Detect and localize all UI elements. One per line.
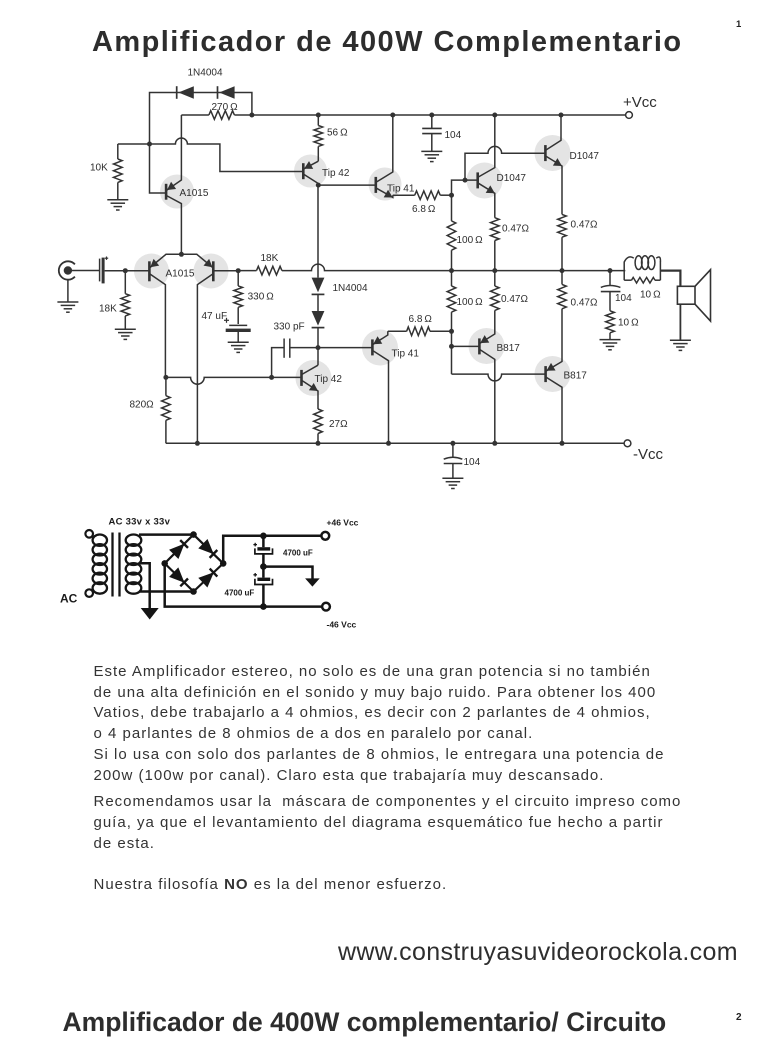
transistor Q5 emitter lead xyxy=(376,188,393,198)
resistor R12 27 ohm xyxy=(314,409,323,434)
svg-text:0.47Ω: 0.47Ω xyxy=(571,220,598,231)
wire input to cap xyxy=(68,270,99,272)
transistor Q8 collector lead xyxy=(302,365,319,374)
bridge rectifier outline xyxy=(165,535,224,592)
junction node left collector xyxy=(163,375,168,380)
next page title sliver xyxy=(63,1007,667,1038)
wire Q1 base drop xyxy=(150,144,167,193)
transistor Q8 emitter lead xyxy=(302,380,319,409)
wire D1047-1 base link xyxy=(452,180,478,195)
svg-text:AC 33v x 33v: AC 33v x 33v xyxy=(109,517,171,528)
svg-text:4700 uF: 4700 uF xyxy=(225,589,255,598)
junction node tail xyxy=(179,252,184,257)
transistor Q10 emitter arrow xyxy=(480,335,489,343)
diode D2 1N4004 xyxy=(219,86,234,99)
svg-text:100 Ω: 100 Ω xyxy=(457,235,484,246)
bridge diode lower-right xyxy=(198,572,214,587)
paragraph 3 xyxy=(94,875,448,896)
transistor Q3 A1015 bar xyxy=(212,261,215,281)
wire diode branch top xyxy=(150,93,252,145)
junction node base link xyxy=(463,178,468,183)
terminal -Vcc xyxy=(624,440,631,447)
resistor R9 0.47 ohm upper-left xyxy=(491,218,500,241)
transistor Q11 emitter arrow xyxy=(546,363,555,371)
wire Q3 base xyxy=(213,270,238,272)
transistor Q9 collector lead xyxy=(372,350,388,443)
capacitor C5 104 bottom stem xyxy=(452,443,454,457)
transistor Q6 D1047 bar xyxy=(476,172,479,188)
svg-text:10 Ω: 10 Ω xyxy=(640,290,661,301)
svg-text:0.47Ω: 0.47Ω xyxy=(502,224,529,235)
wire bridge to -46 rail xyxy=(165,563,323,606)
input connector RCA outer xyxy=(59,261,75,279)
svg-text:D1047: D1047 xyxy=(570,151,600,162)
junction node 330pF leg xyxy=(269,375,274,380)
capacitor C8 4700uF top bar xyxy=(257,578,270,581)
transistor Q6 emitter lead xyxy=(478,183,495,218)
junction dots on -Vcc rail xyxy=(195,441,200,446)
capacitor C3 104 plates xyxy=(422,127,442,129)
wire B817-1 base xyxy=(452,345,480,347)
capacitor C5 plates xyxy=(444,457,463,459)
wire tail left arm xyxy=(149,254,181,268)
resistor R5 18K feedback xyxy=(238,270,256,272)
transistor Q10 collector lead xyxy=(479,349,494,443)
wire secondary top to bridge xyxy=(139,533,194,536)
ground below C5 xyxy=(442,477,463,479)
transistor Q1 emitter lead xyxy=(166,115,181,191)
transistor Q2 A1015 bar xyxy=(148,261,151,281)
capacitor C1 input coupling plate2 xyxy=(102,258,105,284)
capacitor C8 4700uF tray xyxy=(255,579,273,585)
terminal +Vcc xyxy=(626,112,633,119)
wire speaker to ground xyxy=(679,304,681,340)
bridge corner dots xyxy=(190,531,197,538)
terminal AC primary top xyxy=(85,530,93,538)
transformer T1 secondary winding xyxy=(126,535,142,546)
resistor R17 10 ohm zobel xyxy=(609,292,611,311)
svg-text:D1047: D1047 xyxy=(497,173,527,184)
ground below RCA xyxy=(57,301,78,303)
terminal +46 Vcc xyxy=(321,532,329,540)
wire D1047-2 base link with hop xyxy=(465,146,545,180)
transistor Q11 B817 shading circle xyxy=(535,356,571,392)
svg-text:270 Ω: 270 Ω xyxy=(212,102,239,113)
wire Q8 base with hop xyxy=(166,377,302,384)
wire secondary bottom to bridge xyxy=(139,590,194,593)
resistor R7 6.8 ohm upper xyxy=(393,194,415,196)
diode D1 1N4004 xyxy=(178,86,193,99)
website url xyxy=(338,938,738,967)
capacitor C6 plates xyxy=(601,286,621,288)
transistor Q11 B817 bar xyxy=(544,366,547,382)
svg-text:330 Ω: 330 Ω xyxy=(248,292,275,303)
wire 0.47 LR top xyxy=(561,271,563,285)
capacitor C5 lower stem xyxy=(452,464,454,479)
junction node input bias xyxy=(123,268,128,273)
page title xyxy=(92,26,683,59)
capacitor C4 330pF plates xyxy=(283,339,285,358)
speaker box xyxy=(677,286,695,304)
speaker horn xyxy=(695,270,711,321)
svg-text:A1015: A1015 xyxy=(180,188,209,199)
svg-text:Tip 41: Tip 41 xyxy=(392,349,420,360)
transistor Q6 emitter arrow xyxy=(486,185,495,193)
wire cap to Q2 base xyxy=(105,270,150,272)
svg-text:104: 104 xyxy=(615,293,632,304)
wire Q5 base xyxy=(318,184,376,186)
svg-text:Tip 42: Tip 42 xyxy=(322,168,350,179)
ground below zobel xyxy=(600,339,621,341)
transistor Q4 Tip42 bar xyxy=(302,163,305,179)
transformer T1 primary winding xyxy=(93,535,107,546)
transistor Q1 A1015 bar xyxy=(165,184,168,200)
wire filter column lower xyxy=(262,585,265,607)
resistor R16 0.47 ohm lower-right xyxy=(558,284,567,308)
capacitor C1 input coupling plate1 xyxy=(99,259,101,282)
junction node diode-330pF xyxy=(316,345,321,350)
junction node Q4-Q5 xyxy=(316,183,321,188)
capacitor C2 polarity tick xyxy=(224,319,229,321)
transistor Q4 emitter arrow xyxy=(304,161,313,169)
transistor Q5 Tip41 bar xyxy=(374,177,377,193)
svg-text:0.47Ω: 0.47Ω xyxy=(571,298,598,309)
junction node 6.8 lower xyxy=(449,329,454,334)
transistor Q9 emitter arrow xyxy=(373,336,382,344)
arrow emitter Q2 xyxy=(150,259,159,267)
svg-text:18K: 18K xyxy=(261,253,279,264)
ground below speaker xyxy=(670,339,691,341)
transistor Q4 emitter lead xyxy=(303,161,318,169)
capacitor C8 polarity tick xyxy=(253,574,257,576)
bridge diode lower-left xyxy=(169,567,184,582)
wire to speaker xyxy=(660,271,680,287)
capacitor C3 104 stem xyxy=(431,115,433,128)
svg-text:Tip 41: Tip 41 xyxy=(387,183,415,194)
svg-text:6.8 Ω: 6.8 Ω xyxy=(409,314,433,325)
terminal AC primary bottom xyxy=(85,589,93,597)
svg-text:+46 Vcc: +46 Vcc xyxy=(327,518,359,528)
transistor Q11 emitter lead xyxy=(546,309,562,372)
capacitor C3 lower stem xyxy=(431,134,433,152)
wire RCA ground stem xyxy=(67,280,69,302)
ground below 18K xyxy=(115,328,136,330)
wire C4 left leg xyxy=(272,348,285,378)
circuit schematic svg xyxy=(0,0,768,700)
transistor Q7 D1047 bar xyxy=(544,145,547,161)
svg-text:330 pF: 330 pF xyxy=(274,322,305,333)
svg-text:104: 104 xyxy=(445,130,462,141)
transistor Q9 Tip 41 lower shading circle xyxy=(362,330,398,366)
transistor Q5 Tip 41 upper shading circle xyxy=(369,168,402,201)
inductor L1 with R parallel box left edge xyxy=(623,262,625,281)
transistor Q8 emitter arrow xyxy=(309,383,318,391)
wire diode string to node xyxy=(317,328,319,348)
resistor R6 56 ohm xyxy=(317,115,319,126)
transistor Q7 collector lead xyxy=(545,115,561,150)
transistor Q3 collector lead xyxy=(197,274,213,444)
resistor R18 10 ohm parallel xyxy=(624,279,631,281)
transistor Q7 emitter lead xyxy=(545,156,562,215)
transistor Q2 A1015 left pair shading circle xyxy=(134,254,169,289)
wire between diodes xyxy=(317,294,319,311)
svg-text:27Ω: 27Ω xyxy=(329,419,348,430)
svg-text:56 Ω: 56 Ω xyxy=(327,128,348,139)
page number 1 xyxy=(736,19,741,30)
capacitor C2 47uF plate2 xyxy=(226,329,251,332)
inductor L1 coil xyxy=(624,257,634,262)
transistor Q7 emitter arrow xyxy=(553,158,562,166)
page number 2 xyxy=(736,1012,742,1023)
junction node 6.8-100 xyxy=(449,193,454,198)
transistor Q3 A1015 right pair shading circle xyxy=(194,254,229,289)
transistor Q9 emitter lead xyxy=(372,331,387,345)
input connector RCA pin xyxy=(64,266,72,274)
wire +Vcc rail xyxy=(252,114,626,116)
junction node feedback xyxy=(236,268,241,273)
resistor R3 18K input xyxy=(124,271,126,294)
svg-text:104: 104 xyxy=(464,457,481,468)
wire cap midpoint to ground xyxy=(263,567,312,580)
diode D3 1N4004 xyxy=(312,278,325,293)
wire bridge to +46 rail xyxy=(223,536,321,564)
ground below 10K xyxy=(107,199,128,201)
transistor Q2 collector lead xyxy=(149,274,165,378)
paragraph 1 xyxy=(94,662,665,787)
wire column A upper xyxy=(451,195,453,221)
transistor Q5 collector lead xyxy=(376,115,393,182)
svg-text:820Ω: 820Ω xyxy=(130,400,155,411)
wire diode node to Q8 xyxy=(317,348,319,366)
resistor R15 0.47 ohm lower-left xyxy=(491,286,500,310)
transistor Q1 emitter arrow xyxy=(167,182,176,190)
transistor Q10 emitter lead xyxy=(479,310,494,343)
arrow emitter Q3 xyxy=(204,259,213,267)
svg-text:Tip 42: Tip 42 xyxy=(315,374,343,385)
paragraph 2 xyxy=(94,792,682,854)
transformer T1 core xyxy=(111,533,113,597)
resistor R11 820 ohm xyxy=(165,377,167,395)
capacitor C2 47uF plate1 xyxy=(229,324,247,326)
bridge diode upper-left xyxy=(169,544,184,559)
svg-text:4700 uF: 4700 uF xyxy=(283,548,313,557)
resistor R13 6.8 ohm lower xyxy=(388,330,407,332)
junction dots on +Vcc rail xyxy=(316,113,321,118)
junction dots on output rail xyxy=(449,268,454,273)
transistor Q4 Tip 42 upper shading circle xyxy=(294,155,327,188)
wire column A to B817 bases xyxy=(451,331,453,374)
resistor R4 330 ohm xyxy=(237,271,239,286)
junction node B817-1 base xyxy=(449,344,454,349)
transistor Q10 B817 shading circle xyxy=(469,328,505,364)
wire C2 to ground xyxy=(237,332,239,342)
wire filter column upper xyxy=(262,536,265,547)
transistor Q1 A1015 shading circle xyxy=(160,175,194,209)
wire Q2 base xyxy=(125,270,149,272)
junction node bias xyxy=(147,142,152,147)
transistor Q4 collector lead xyxy=(303,174,318,185)
transistor Q11 collector lead xyxy=(546,377,562,443)
transistor Q9 Tip41 lower bar xyxy=(371,339,374,355)
svg-text:B817: B817 xyxy=(564,371,588,382)
transistor Q1 collector lead xyxy=(166,195,181,254)
transistor Q10 B817 bar xyxy=(478,338,481,354)
ground arrow filter xyxy=(305,578,320,586)
diode D4 1N4004 xyxy=(312,311,325,326)
svg-text:100 Ω: 100 Ω xyxy=(457,297,484,308)
svg-text:10K: 10K xyxy=(90,163,108,174)
svg-text:6.8 Ω: 6.8 Ω xyxy=(412,204,436,215)
resistor R10 0.47 ohm upper-right xyxy=(558,214,567,237)
svg-text:47 uF: 47 uF xyxy=(202,311,228,322)
transistor Q5 emitter arrow xyxy=(384,190,393,198)
capacitor C7 4700uF top bar xyxy=(257,547,270,550)
svg-text:+Vcc: +Vcc xyxy=(623,94,657,111)
resistor R8 100 ohm upper xyxy=(447,221,456,250)
svg-text:10 Ω: 10 Ω xyxy=(618,318,639,329)
resistor R14 100 ohm lower xyxy=(451,271,453,286)
resistor R2 10K xyxy=(117,144,119,159)
inductor box right edge xyxy=(659,262,661,281)
svg-text:18K: 18K xyxy=(99,304,117,315)
svg-text:A1015: A1015 xyxy=(166,269,195,280)
wire diode string vertical xyxy=(317,185,319,278)
wire -Vcc rail xyxy=(166,442,624,444)
junction node rail-270 xyxy=(249,113,254,118)
wire B817-2 base with hop xyxy=(452,374,546,381)
svg-text:AC: AC xyxy=(60,592,78,606)
transistor Q7 D1047 shading circle xyxy=(535,135,571,171)
ground below C3 xyxy=(421,150,442,152)
ground arrow center tap xyxy=(141,608,159,620)
resistor R1 270 ohm xyxy=(181,114,209,116)
transistor Q6 D1047 shading circle xyxy=(467,163,503,199)
junction node filter bottom xyxy=(260,603,267,610)
svg-text:B817: B817 xyxy=(497,343,521,354)
ground below 47uF xyxy=(228,341,249,343)
wire center tap xyxy=(140,563,150,608)
wire 0.47 LL top xyxy=(494,271,496,286)
bridge diode upper-right xyxy=(198,539,214,554)
wire output rail left with hop xyxy=(282,264,625,271)
svg-text:-46 Vcc: -46 Vcc xyxy=(327,620,357,630)
svg-text:1N4004: 1N4004 xyxy=(333,283,368,294)
transistor Q8 Tip42 lower bar xyxy=(300,370,303,386)
capacitor C1 polarity tick xyxy=(105,257,108,259)
capacitor C6 104 zobel stem xyxy=(609,271,611,286)
transistor Q8 Tip 42 lower shading circle xyxy=(296,360,332,396)
svg-text:1N4004: 1N4004 xyxy=(188,68,223,79)
svg-text:0.47Ω: 0.47Ω xyxy=(501,294,528,305)
capacitor C7 polarity tick xyxy=(253,544,257,546)
junction node between caps xyxy=(260,563,267,570)
transistor Q6 collector lead xyxy=(478,115,495,177)
capacitor C7 4700uF tray xyxy=(255,548,273,554)
wire between caps xyxy=(262,554,265,578)
terminal -46 Vcc xyxy=(322,603,330,611)
junction node filter top xyxy=(260,533,267,540)
wire tail right arm xyxy=(181,254,213,268)
wire C4 right to Q9 base xyxy=(290,347,373,349)
wire bias horizontal with hop xyxy=(118,138,303,172)
svg-text:-Vcc: -Vcc xyxy=(633,446,664,463)
